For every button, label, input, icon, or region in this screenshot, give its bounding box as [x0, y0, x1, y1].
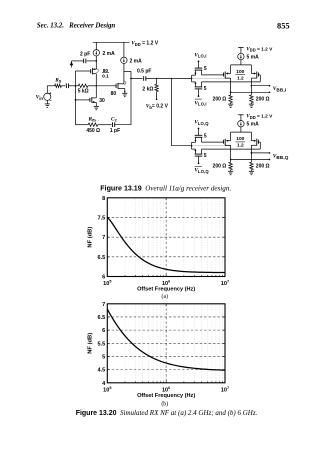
- svg-text:Offset Frequency (Hz): Offset Frequency (Hz): [137, 287, 195, 293]
- svg-text:450 Ω: 450 Ω: [86, 128, 100, 134]
- chart b frame: [107, 304, 225, 383]
- svg-text:200 Ω: 200 Ω: [213, 97, 227, 103]
- svg-text:6: 6: [102, 275, 105, 281]
- capacitor 0.5 pF: [143, 76, 145, 81]
- wire mixer I VBB upper: [251, 85, 269, 87]
- svg-text:7.5: 7.5: [98, 215, 106, 221]
- current source I2 2 mA: [123, 42, 125, 57]
- svg-text:Offset Frequency (Hz): Offset Frequency (Hz): [137, 393, 195, 399]
- chart a frame: [107, 198, 225, 277]
- wire mixer Q upper switch output: [202, 141, 224, 143]
- svg-text:0.5 pF: 0.5 pF: [137, 69, 151, 75]
- svg-text:7: 7: [102, 235, 105, 241]
- AC ground arrow: [71, 61, 73, 68]
- chart b major gridlines: [107, 304, 225, 383]
- wire mixer I lower switch output / gate bus: [202, 81, 261, 83]
- resistor mixer Q 200 right: [250, 162, 253, 170]
- svg-text:5 kΩ: 5 kΩ: [78, 89, 89, 95]
- transistor mixer Q PMOS right 100/1.2: [250, 132, 252, 141]
- svg-text:30: 30: [99, 98, 105, 104]
- source Vin: [44, 93, 51, 100]
- wire Q branch: [171, 79, 173, 146]
- ground at M2: [122, 92, 127, 94]
- feedback resistor Rfb 450: [76, 124, 89, 126]
- transistor mixer I PMOS left 100/1.2: [230, 65, 232, 74]
- wire mixer I RF stub: [192, 78, 231, 80]
- mixer I LO-bar terminal: [198, 89, 200, 96]
- svg-text:NF (dB): NF (dB): [87, 333, 93, 354]
- resistor RS: [47, 85, 54, 87]
- VDD symbol mixer Q: [238, 114, 243, 116]
- svg-text:5: 5: [102, 354, 105, 360]
- node input: [75, 85, 77, 87]
- mixer I load rail: [231, 64, 252, 66]
- chart b curve: [107, 309, 225, 370]
- svg-text:VDD = 1.2 V: VDD = 1.2 V: [246, 46, 273, 52]
- svg-text:VLO,I: VLO,I: [194, 52, 206, 58]
- mixer Q LO-bar terminal: [198, 156, 200, 163]
- svg-text:Rfb: Rfb: [88, 116, 97, 122]
- chart a minor gridlines: [125, 198, 222, 277]
- ground mixer I right: [249, 103, 254, 105]
- svg-text:1.2: 1.2: [237, 76, 244, 82]
- svg-text:200 Ω: 200 Ω: [256, 97, 270, 103]
- node 2k: [156, 78, 158, 80]
- resistor mixer Q 200 left: [229, 162, 232, 170]
- svg-text:80: 80: [111, 91, 117, 97]
- node Q branch: [171, 78, 173, 80]
- svg-text:5: 5: [204, 66, 207, 72]
- svg-text:VLO,Q: VLO,Q: [194, 168, 209, 174]
- current source mixer Q 5 mA: [238, 121, 244, 127]
- resistor 2 k: [156, 79, 158, 85]
- transistor mixer I switch upper 5: [195, 67, 203, 69]
- svg-text:855: 855: [277, 22, 290, 31]
- svg-text:0.1: 0.1: [102, 74, 109, 80]
- svg-text:7: 7: [102, 302, 105, 308]
- svg-text:Vin: Vin: [36, 95, 44, 101]
- resistor 5 k: [76, 85, 79, 87]
- ground mixer Q right: [249, 170, 254, 172]
- svg-text:VBB,Q: VBB,Q: [273, 153, 289, 159]
- node mixer Q out lower: [230, 159, 232, 161]
- current source I1 2 mA: [95, 42, 97, 49]
- transistor M3 30: [75, 99, 77, 101]
- wire mixer Q lower switch output / gate bus: [202, 148, 261, 150]
- wire output jog: [124, 70, 131, 72]
- ground at M3: [94, 105, 99, 107]
- svg-text:6.5: 6.5: [98, 315, 106, 321]
- transistor mixer Q switch lower 5: [195, 153, 203, 155]
- resistor mixer I 200 right: [250, 95, 253, 103]
- svg-text:5: 5: [204, 86, 207, 92]
- resistor mixer I 200 left: [229, 95, 232, 103]
- svg-text:VLO,I: VLO,I: [194, 100, 206, 106]
- wire mixer Q VBB upper: [251, 152, 269, 154]
- VDD symbol mixer I: [238, 47, 243, 49]
- svg-text:100: 100: [236, 136, 244, 142]
- svg-text:6.5: 6.5: [98, 255, 106, 261]
- svg-text:Figure 13.20 Simulated RX NF: Figure 13.20 Simulated RX NF at (a) 2.4 …: [76, 409, 258, 417]
- svg-text:2 pF: 2 pF: [80, 52, 90, 58]
- svg-text:5 mA: 5 mA: [247, 55, 260, 61]
- wire LNA out: [131, 78, 143, 80]
- node LNA output: [130, 78, 132, 80]
- label V_LO,Q bar: [195, 165, 202, 167]
- capacitor 2 pF: [87, 60, 97, 62]
- node mixer Q RF: [191, 142, 193, 149]
- VDD rail: [93, 41, 130, 43]
- svg-text:5 mA: 5 mA: [247, 122, 260, 128]
- chart a ticks: [107, 198, 225, 277]
- node mixer I out lower: [230, 91, 232, 93]
- feedback capacitor C2 1 pF: [112, 122, 114, 127]
- chart a major gridlines: [107, 198, 225, 277]
- svg-text:(b): (b): [161, 401, 168, 408]
- svg-text:5: 5: [204, 133, 207, 139]
- ground at Vin: [46, 100, 48, 104]
- transistor M2 80: [115, 84, 117, 88]
- svg-text:Vb= 0.2 V: Vb= 0.2 V: [146, 103, 169, 109]
- ground mixer Q left: [228, 170, 233, 172]
- svg-text:100: 100: [236, 69, 244, 75]
- wire mixer I VBB lower: [231, 91, 270, 93]
- svg-text:2 mA: 2 mA: [130, 58, 143, 64]
- wire mixer I upper switch output: [202, 74, 224, 76]
- wire mixer Q VBB lower: [231, 159, 270, 161]
- wire A to M2 gate: [96, 85, 116, 87]
- node X (M1 drain): [95, 60, 97, 62]
- chart a curve: [107, 217, 225, 272]
- chart b ticks: [107, 304, 225, 383]
- mixer Q LO terminal: [198, 128, 200, 130]
- wire mixer Q RF stub: [192, 145, 231, 147]
- node A: [95, 85, 97, 87]
- svg-text:1.2: 1.2: [237, 143, 244, 149]
- svg-text:VDD = 1.2 V: VDD = 1.2 V: [131, 41, 159, 47]
- node mixer I RF: [191, 75, 193, 82]
- svg-text:VLO,Q: VLO,Q: [194, 120, 209, 126]
- transistor mixer I switch lower 5: [195, 86, 203, 88]
- transistor M1 80/0.1: [95, 61, 97, 69]
- svg-text:Figure 13.19 Overall 11a/g re: Figure 13.19 Overall 11a/g receiver desi…: [100, 184, 231, 192]
- ground mixer I left: [228, 103, 233, 105]
- svg-text:5: 5: [204, 153, 207, 159]
- node mixer Q out upper: [251, 152, 253, 154]
- svg-text:5.5: 5.5: [98, 341, 106, 347]
- svg-text:2 mA: 2 mA: [103, 51, 116, 57]
- svg-text:8: 8: [102, 196, 105, 202]
- capacitor C1 input coupling: [65, 84, 67, 89]
- svg-text:VBB,I: VBB,I: [273, 86, 286, 92]
- transistor mixer Q switch upper 5: [195, 134, 203, 136]
- wire input vertical: [75, 71, 77, 125]
- svg-text:Sec. 13.2. Receiver Design: Sec. 13.2. Receiver Design: [37, 23, 116, 30]
- svg-text:200 Ω: 200 Ω: [213, 164, 227, 170]
- svg-text:(a): (a): [162, 293, 169, 300]
- svg-text:VDD = 1.2 V: VDD = 1.2 V: [246, 114, 273, 120]
- label V_LO,I bar: [195, 98, 202, 100]
- svg-text:6: 6: [102, 328, 105, 334]
- chart b minor gridlines: [125, 304, 222, 383]
- mixer Q load rail: [231, 131, 252, 133]
- svg-text:1 pF: 1 pF: [110, 128, 120, 134]
- svg-text:RS: RS: [54, 77, 62, 83]
- svg-text:200 Ω: 200 Ω: [256, 164, 270, 170]
- wire CS2 to M2 drain: [123, 64, 125, 84]
- svg-text:2 kΩ: 2 kΩ: [142, 86, 153, 92]
- transistor mixer I PMOS right 100/1.2: [250, 65, 252, 74]
- svg-text:4.5: 4.5: [98, 368, 106, 374]
- svg-text:C2: C2: [111, 116, 118, 122]
- svg-text:NF (dB): NF (dB): [87, 227, 93, 248]
- node mixer I out upper: [251, 85, 253, 87]
- mixer I LO terminal: [198, 60, 200, 62]
- wire RF line: [146, 78, 192, 80]
- current source mixer I 5 mA: [238, 53, 244, 59]
- transistor mixer Q PMOS left 100/1.2: [230, 132, 232, 141]
